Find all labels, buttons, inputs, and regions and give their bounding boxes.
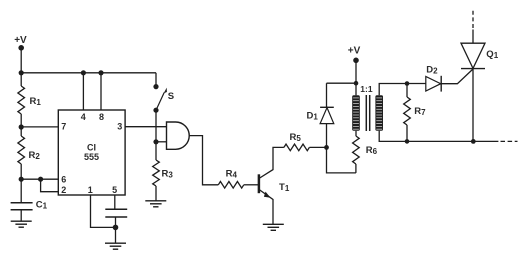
wire pin 5 lead bbox=[114, 195, 116, 209]
label R5 bbox=[290, 132, 302, 143]
node R7 top junction bbox=[405, 81, 410, 86]
wire Q1 anode dashed continuation bbox=[472, 10, 474, 28]
wire bottom jog to R6 bbox=[327, 147, 356, 173]
transistor T1 emitter with arrow bbox=[259, 189, 273, 224]
pin label 6 bbox=[61, 175, 66, 185]
pin label 1 bbox=[88, 185, 93, 195]
svg-text:R1: R1 bbox=[30, 96, 42, 107]
svg-text:R6: R6 bbox=[366, 145, 378, 156]
ground T1 bbox=[263, 224, 284, 230]
wire C1 to ground bbox=[20, 210, 22, 222]
svg-text:R3: R3 bbox=[162, 168, 174, 179]
label C1 bbox=[36, 200, 48, 211]
label R6 bbox=[366, 145, 378, 156]
label R3 bbox=[162, 168, 174, 179]
svg-text:R4: R4 bbox=[226, 169, 238, 180]
label transformer ratio 1:1 bbox=[360, 84, 373, 94]
resistor R1 bbox=[18, 86, 25, 114]
wire primary bottom to R6 bbox=[355, 131, 357, 136]
label T1 bbox=[279, 182, 290, 193]
wire rail down to switch bbox=[155, 73, 157, 87]
wire decoupling node down bbox=[115, 217, 117, 243]
node pin7 junction bbox=[19, 124, 24, 129]
wire D1 cathode lead bbox=[326, 83, 328, 107]
svg-text:4: 4 bbox=[81, 112, 86, 122]
svg-text:R7: R7 bbox=[414, 106, 426, 117]
node primary-D1 junction bbox=[354, 81, 359, 86]
svg-text:S: S bbox=[168, 91, 174, 102]
label D2 bbox=[426, 64, 438, 75]
wire pin 8 bbox=[100, 73, 102, 110]
wire D1 to primary top bbox=[327, 82, 357, 84]
wire pin 7 bbox=[21, 126, 58, 128]
node pin6 junction bbox=[19, 177, 24, 182]
svg-text:1:1: 1:1 bbox=[360, 84, 373, 94]
svg-text:1: 1 bbox=[88, 185, 93, 195]
svg-text:2: 2 bbox=[61, 185, 66, 195]
node rail-pin8 junction bbox=[98, 70, 103, 75]
label D1 bbox=[307, 111, 319, 122]
node +V left terminal bbox=[18, 45, 24, 51]
svg-text:+V: +V bbox=[348, 45, 361, 56]
wire R1 bottom lead bbox=[20, 114, 22, 127]
pin label 3 bbox=[117, 121, 122, 131]
wire switch down through pin3 line bbox=[155, 110, 157, 160]
diode D1 bbox=[320, 107, 334, 123]
IC U1 555 body bbox=[58, 110, 125, 195]
label S bbox=[168, 91, 174, 102]
capacitor C1 bbox=[11, 203, 33, 210]
wire D2 to Q1 gate bbox=[441, 69, 473, 84]
wire output dashed continuation bbox=[501, 140, 518, 142]
transformer TR1 secondary winding bbox=[375, 95, 383, 131]
resistor R2 bbox=[18, 136, 25, 164]
node switch top contact bbox=[153, 84, 158, 89]
wire pin 6 bbox=[21, 178, 58, 180]
label R1 bbox=[30, 96, 42, 107]
transformer TR1 core bbox=[366, 95, 369, 131]
resistor R3 bbox=[153, 160, 160, 186]
wire secondary top bbox=[379, 84, 407, 96]
wire R7 bottom lead bbox=[406, 125, 408, 141]
svg-text:D2: D2 bbox=[426, 64, 438, 75]
wire pin 4 bbox=[82, 73, 84, 110]
ground R3 bbox=[145, 201, 166, 207]
capacitor C2 on pin 5 bbox=[105, 209, 127, 217]
svg-text:Q1: Q1 bbox=[486, 49, 498, 60]
pin label 7 bbox=[61, 121, 66, 131]
wire pin 1 bbox=[91, 195, 116, 227]
label CI 555 bbox=[84, 142, 99, 162]
wire output line right bbox=[473, 140, 498, 142]
svg-text:5: 5 bbox=[112, 185, 117, 195]
svg-text:3: 3 bbox=[117, 121, 122, 131]
label R4 bbox=[226, 169, 238, 180]
wire Q1 anode bbox=[472, 30, 474, 44]
pin label 2 bbox=[61, 185, 66, 195]
svg-text:CI: CI bbox=[87, 142, 96, 152]
svg-text:D1: D1 bbox=[307, 111, 319, 122]
svg-text:7: 7 bbox=[61, 121, 66, 131]
node switch bottom contact bbox=[153, 108, 158, 113]
svg-text:+V: +V bbox=[14, 35, 27, 46]
switch S lever with arrow bbox=[156, 88, 167, 111]
svg-text:R5: R5 bbox=[290, 132, 302, 143]
wire R5 to node bbox=[309, 146, 326, 148]
resistor R6 bbox=[353, 136, 360, 164]
wire R7 top lead bbox=[406, 84, 408, 98]
wire C1 top lead bbox=[20, 179, 22, 203]
wire top supply rail bbox=[21, 72, 156, 74]
svg-text:C1: C1 bbox=[36, 200, 48, 211]
wire Q1 cathode bbox=[472, 69, 474, 142]
wire gate output bbox=[189, 136, 218, 185]
wire R2 bottom lead bbox=[20, 164, 22, 179]
wire R7 to D2 bbox=[407, 83, 426, 85]
wire +V right down bbox=[355, 60, 357, 95]
wire R3 to ground bbox=[155, 186, 157, 201]
wire +V left down to rail bbox=[20, 48, 22, 73]
node rail-R1 junction bbox=[19, 70, 24, 75]
svg-text:555: 555 bbox=[84, 152, 99, 162]
wire AND gate input B bbox=[156, 141, 167, 143]
pin label 4 bbox=[81, 112, 86, 122]
node pin1-pin5 junction bbox=[113, 225, 119, 231]
pin label 5 bbox=[112, 185, 117, 195]
resistor R5 bbox=[284, 144, 310, 151]
wire secondary bottom bbox=[379, 131, 473, 142]
label Q1 bbox=[486, 49, 498, 60]
node AND gate input B junction bbox=[153, 139, 158, 144]
+V supply label (left) bbox=[14, 35, 27, 46]
wire R1 top lead bbox=[20, 73, 22, 86]
resistor R4 bbox=[218, 182, 244, 189]
wire R4 to base bbox=[244, 184, 258, 186]
wire pin 2 jog bbox=[41, 179, 59, 192]
label R2 bbox=[29, 150, 41, 161]
wire D1 anode lead bbox=[326, 124, 328, 148]
node rail-pin4 junction bbox=[81, 70, 86, 75]
ground IC bbox=[105, 243, 126, 249]
diode D2 bbox=[426, 76, 441, 92]
svg-text:T1: T1 bbox=[279, 182, 290, 193]
transformer TR1 primary winding bbox=[352, 95, 360, 131]
transistor T1 collector bbox=[259, 147, 284, 178]
resistor R7 bbox=[404, 97, 411, 125]
node pin2 branch junction bbox=[38, 177, 43, 182]
transistor T1 base bar bbox=[258, 174, 261, 193]
+V supply label (right) bbox=[348, 45, 361, 56]
wire R6 bottom lead bbox=[355, 164, 357, 173]
label R7 bbox=[414, 106, 426, 117]
AND gate U2 bbox=[167, 122, 190, 149]
svg-text:6: 6 bbox=[61, 175, 66, 185]
wire pin 3 bbox=[125, 126, 166, 128]
node +V right terminal bbox=[353, 58, 359, 64]
SCR Q1 bbox=[461, 43, 485, 68]
pin label 8 bbox=[99, 112, 104, 122]
node Q1 bottom junction bbox=[471, 139, 476, 144]
node R5-D1-R6 junction bbox=[324, 145, 329, 150]
wire R2 top lead bbox=[20, 127, 22, 136]
svg-text:R2: R2 bbox=[29, 150, 41, 161]
svg-text:8: 8 bbox=[99, 112, 104, 122]
ground C1 bbox=[11, 221, 32, 227]
node R7 bottom junction bbox=[405, 139, 410, 144]
